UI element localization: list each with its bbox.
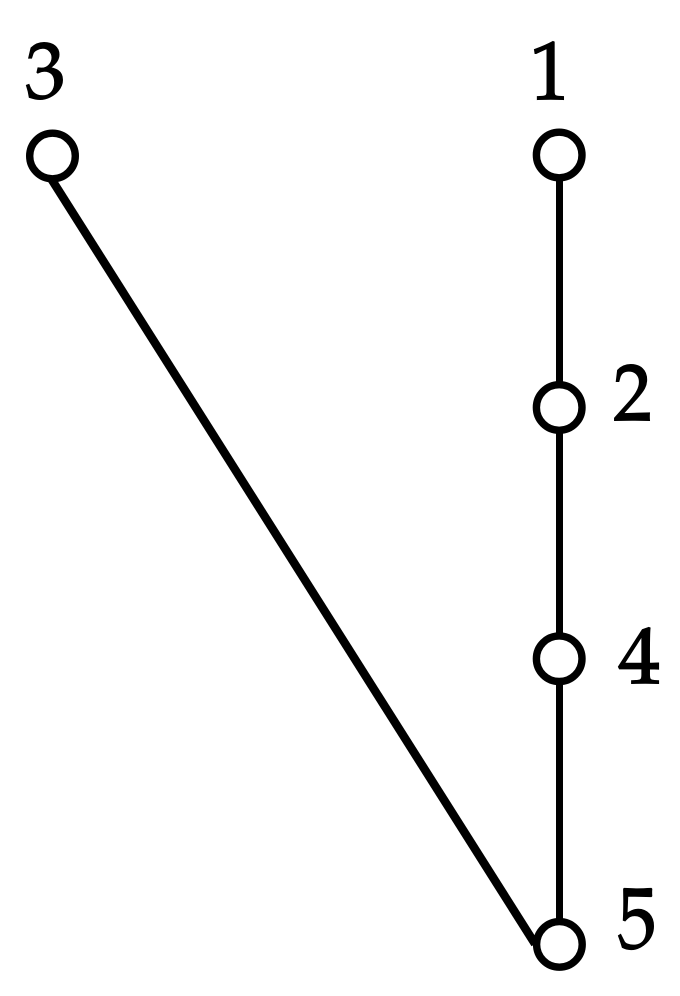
node 4 — [536, 636, 582, 682]
node 5 — [537, 922, 583, 968]
edge 1-2-4-5 (vertical wire) — [556, 155, 563, 944]
label 5 — [619, 889, 654, 950]
label 1 — [535, 42, 564, 100]
label 2 — [615, 365, 650, 421]
node 3 — [30, 133, 76, 179]
label 4 — [619, 628, 659, 684]
node 2 — [536, 385, 582, 431]
edge 3-5 (diagonal wire) — [37, 156, 535, 944]
label 3 — [27, 43, 63, 100]
node 1 — [536, 132, 582, 178]
